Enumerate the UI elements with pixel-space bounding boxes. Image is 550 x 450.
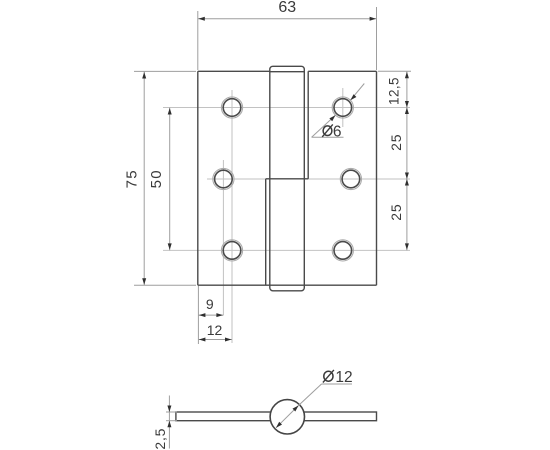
knuckle split line [266,178,309,180]
bottom view bar [176,412,377,421]
knuckle top cap line [270,71,305,73]
centerline row3 [163,249,410,251]
diameter label Ø12 [299,369,353,406]
bottom view knuckle circle [270,400,304,434]
dimension 2,5 [152,396,177,450]
hinge left leaf [198,71,270,285]
svg-text:2,5: 2,5 [152,428,168,450]
svg-text:12: 12 [335,369,352,386]
diameter arrow in circle [275,404,300,429]
dimension 9 [198,286,223,344]
svg-text:63: 63 [278,0,296,16]
hole top-left [221,97,242,118]
hinge right leaf [308,71,376,285]
centerline left column 9 [222,160,224,315]
dimension 12 [198,322,232,341]
svg-text:25: 25 [388,204,404,221]
hole bottom-left [221,240,242,261]
svg-text:50: 50 [148,169,165,188]
svg-text:75: 75 [124,169,141,188]
hole middle-left [213,168,234,189]
knuckle barrel [270,66,305,290]
svg-text:6: 6 [333,123,342,140]
centerline right column 12 [342,88,344,127]
dimension 63 [198,0,377,70]
lower sleeve left edge [265,179,267,285]
svg-text:25: 25 [388,134,404,151]
svg-text:9: 9 [206,296,214,312]
diameter label Ø6 [312,84,365,141]
dimension 12,5 / 25 / 25 [378,71,411,250]
centerline row1 [163,107,410,109]
centerline row2 [207,178,410,180]
hole bottom-right [332,240,353,261]
leaves bottom edge [198,284,377,286]
hole middle-right [340,168,361,189]
dimension 50 [148,108,172,251]
svg-text:12,5: 12,5 [387,77,402,105]
hole top-right [332,97,353,118]
centerline left column 12 [231,90,233,343]
dimension 75 [124,71,196,285]
svg-text:12: 12 [207,322,223,338]
